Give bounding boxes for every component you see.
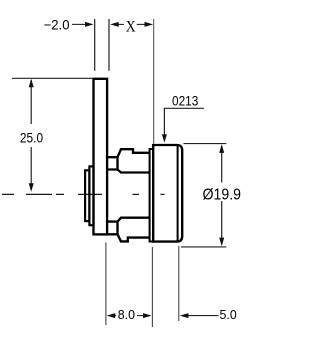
head bezel outline	[153, 145, 182, 242]
washer tab bottom	[107, 222, 117, 235]
svg-text:X: X	[126, 18, 136, 35]
head front face edge	[177, 146, 179, 241]
dim 25.0 extension line top	[12, 77, 92, 79]
dim 8.0 extension right	[151, 247, 153, 327]
retaining clip bottom	[118, 234, 150, 241]
dim dia19.9 extension top	[184, 143, 227, 145]
extension line plate left	[94, 19, 96, 71]
front flange	[150, 149, 154, 242]
cam plate	[94, 79, 108, 235]
body barrel bottom edge	[118, 218, 150, 222]
svg-text:Ø19.9: Ø19.9	[203, 187, 242, 204]
shaft ring 2	[89, 166, 93, 225]
centerline	[2, 193, 165, 195]
extension line head front top	[153, 19, 155, 144]
svg-text:−2.0: −2.0	[44, 18, 70, 33]
dim dia19.9 line	[219, 144, 224, 246]
dim -2.0 arrow	[72, 22, 94, 27]
svg-text:0213: 0213	[172, 94, 198, 110]
dim 8.0 arrows	[107, 313, 152, 318]
washer tab top	[107, 157, 117, 169]
svg-text:8.0: 8.0	[118, 308, 135, 322]
label 0213 leader	[162, 108, 204, 143]
dim 25.0 line	[29, 79, 34, 192]
svg-text:5.0: 5.0	[220, 308, 237, 322]
extension line plate right	[108, 19, 110, 71]
dim 8.0 extension left	[105, 243, 107, 326]
shaft ring 1	[85, 170, 89, 221]
svg-text:25.0: 25.0	[20, 129, 43, 145]
dim 5.0 extension	[178, 246, 180, 321]
dim 5.0 arrow	[180, 313, 219, 318]
dim dia19.9 extension bottom	[181, 246, 226, 248]
body barrel top edge	[118, 170, 150, 173]
dim X left arrow	[110, 22, 153, 27]
retaining clip top	[118, 149, 150, 157]
